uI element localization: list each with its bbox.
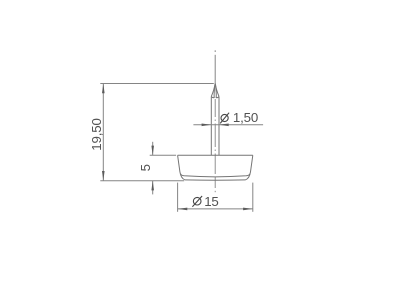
dimension 19,50 : dimension line with arrows: [100, 84, 214, 181]
nail shaft: [211, 97, 219, 156]
nail point (cone): [211, 84, 219, 98]
glide base outline: [178, 155, 253, 180]
centerline above nail tip: [214, 50, 216, 83]
dimension diameter 15 : arrowheads: [178, 208, 253, 211]
svg-text:1,50: 1,50: [233, 110, 258, 125]
dimension 19,50 : arrowheads: [102, 84, 105, 181]
svg-text:5: 5: [138, 164, 153, 171]
nail/base centerline (dash-dot): [214, 99, 216, 192]
dimension 5 : extension + arrows outside: [150, 142, 176, 195]
svg-text:19,50: 19,50: [89, 118, 104, 151]
dimension diameter 1,50 : dimension line: [193, 124, 263, 126]
svg-text:15: 15: [204, 194, 219, 209]
dimension diameter 1,50 : diameter symbol: [220, 113, 229, 124]
dimension diameter 1,50 : arrowheads: [202, 124, 229, 127]
dimension diameter 15 : diameter symbol: [192, 196, 202, 207]
dimension diameter 15 : extension lines: [178, 183, 253, 212]
